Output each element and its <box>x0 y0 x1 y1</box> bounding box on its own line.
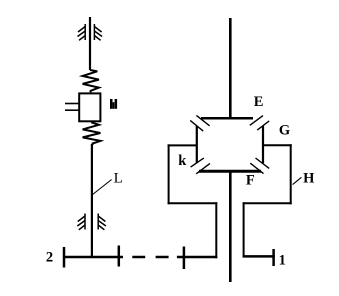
svg-text:F: F <box>246 173 255 189</box>
node tick 2 (left end) <box>63 247 66 268</box>
gimbal box right edge <box>262 126 264 163</box>
flexure slashes top-right <box>250 116 269 131</box>
svg-text:L: L <box>114 171 123 187</box>
svg-text:1: 1 <box>279 252 286 268</box>
wire: left vertical member L <box>91 144 93 257</box>
ground: top fixed support hatching <box>78 24 103 40</box>
gimbal box bottom edge <box>199 170 261 173</box>
leader line to H <box>293 177 302 184</box>
svg-text:G: G <box>279 123 290 139</box>
wire: baseline dash 2 <box>156 256 169 259</box>
node tick cross B <box>118 246 121 267</box>
wire: baseline left solid segment <box>63 256 123 259</box>
svg-text:k: k <box>178 153 187 169</box>
right yoke lower horizontal <box>243 202 292 204</box>
leader line to L <box>93 180 112 195</box>
ground: lower fixed support hatching <box>77 214 106 230</box>
left yoke upper horizontal <box>168 144 197 146</box>
gimbal box left edge <box>196 126 198 163</box>
spring upper (above mass) <box>83 70 99 92</box>
left yoke outer vertical <box>168 144 170 204</box>
spring lower (below mass) <box>83 122 101 145</box>
node tick cross C <box>183 247 186 270</box>
svg-text:H: H <box>303 170 315 186</box>
wire: baseline segment to left yoke <box>177 256 217 259</box>
left yoke inner vertical <box>215 202 217 258</box>
wire: central lower thick vertical <box>229 170 232 282</box>
piston lines left of mass <box>65 104 79 111</box>
right yoke outer vertical <box>290 144 292 204</box>
wire: baseline right segment <box>243 255 275 258</box>
flexure slashes bottom-left <box>191 158 210 174</box>
label M <box>110 99 117 109</box>
left yoke lower horizontal <box>168 202 218 204</box>
flexure slashes top-left <box>190 115 209 131</box>
svg-text:E: E <box>254 94 264 110</box>
flexure slashes bottom-right <box>250 158 269 174</box>
wire: central upper thick vertical <box>229 18 232 118</box>
svg-text:2: 2 <box>46 250 53 266</box>
gimbal box top edge <box>201 117 253 120</box>
mass M box <box>79 93 100 121</box>
wire: baseline dash 1 <box>132 256 145 259</box>
right yoke inner vertical <box>243 202 245 257</box>
right yoke upper horizontal <box>263 144 292 146</box>
node tick 1 (right end) <box>272 249 275 266</box>
wire: upper left vertical lead <box>89 17 91 70</box>
